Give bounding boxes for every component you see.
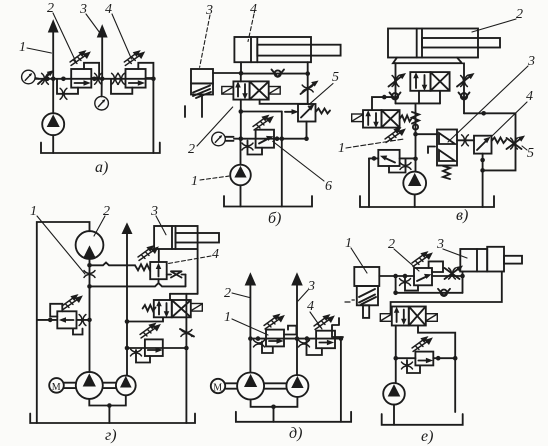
relief ball v	[413, 124, 418, 129]
label 1 d	[224, 310, 268, 335]
wire valve1 to valve2 e	[379, 275, 414, 277]
label 3 b	[200, 3, 213, 67]
valve 2 spring adjust	[70, 51, 90, 65]
valve 2 d drain loop	[307, 342, 322, 356]
motor M d	[211, 379, 225, 394]
wire right branch v	[463, 63, 465, 113]
shaft pump1-pump2 d	[264, 383, 286, 388]
wire riser 1 a	[52, 31, 54, 113]
wire reducing valve right v	[400, 157, 416, 159]
node dots valve4 bottom	[480, 111, 486, 173]
valve 4 spring adjust	[124, 51, 144, 65]
label 2 a	[47, 1, 76, 62]
relief valve 5 box	[298, 104, 316, 122]
dir valve e X cell	[409, 307, 426, 326]
reducing valve drain v	[389, 160, 406, 173]
wire 2nd valve top check	[372, 95, 394, 110]
tank v	[360, 196, 494, 207]
variable throttle right v	[457, 74, 474, 87]
throttle lower valve g	[131, 349, 142, 356]
relief g pilot hook	[50, 304, 62, 317]
wire riser1 d	[249, 284, 251, 373]
label 3 e	[436, 237, 467, 258]
flow arrow 3	[98, 26, 107, 38]
cylinder 2 barrel	[388, 29, 478, 58]
bus1 g	[90, 263, 136, 266]
variable throttle a	[38, 71, 53, 85]
wire riser1 g	[89, 259, 91, 372]
loop bowtie to bus2	[185, 275, 187, 287]
valve 4 g box	[150, 262, 167, 279]
var throttle right g	[181, 330, 192, 337]
cylinder 4 barrel	[234, 37, 311, 62]
relief valve e box	[415, 352, 433, 366]
pump 2 g	[116, 376, 136, 396]
svg-text:6: 6	[325, 179, 332, 194]
wire pump bottom v	[414, 194, 416, 207]
wire T loop e	[418, 326, 455, 413]
svg-text:5: 5	[527, 146, 534, 161]
wire riser 3 a	[101, 36, 103, 79]
pump 1 a	[42, 113, 64, 135]
wire pilot to node b	[213, 72, 241, 74]
pump e	[383, 383, 405, 405]
variable throttle 5 v	[507, 136, 525, 149]
directional valve 2 X cell	[250, 81, 269, 99]
pilot valve 3 body	[191, 69, 213, 83]
tank a	[41, 143, 160, 154]
pump 1 g	[76, 372, 103, 399]
cylinder 4 rod	[257, 45, 340, 56]
label 2 e	[388, 237, 419, 271]
relief spring on riser	[412, 112, 419, 124]
valve 4 spring v	[492, 138, 507, 144]
svg-text:3: 3	[205, 3, 213, 18]
reducing valve v box	[378, 150, 399, 166]
label 4 b	[248, 2, 257, 42]
variable throttle e	[445, 266, 463, 279]
variable throttle mid v	[385, 128, 405, 142]
wire cyl right loop e	[391, 272, 502, 314]
relief valve g box	[57, 311, 76, 328]
reducing valve 2 box	[71, 69, 91, 88]
wire node to valve top b	[240, 74, 242, 82]
wire valve bottoms v	[419, 91, 440, 104]
wire right drop a	[152, 79, 154, 153]
cylinder 2 rod	[422, 38, 500, 48]
pilot valve 3 spring box	[191, 83, 213, 98]
svg-text:4: 4	[307, 299, 314, 314]
svg-text:1: 1	[338, 141, 345, 156]
pump 1 b	[230, 165, 251, 186]
shaft M-pump1 g	[64, 383, 76, 388]
label 1 e	[345, 236, 367, 273]
svg-text:3: 3	[307, 279, 315, 294]
flow arrow g	[122, 224, 131, 234]
wire relief left g	[37, 319, 57, 321]
svg-text:1: 1	[19, 40, 26, 55]
svg-text:5: 5	[332, 70, 339, 85]
check valve line b	[241, 73, 308, 75]
wire reducing valve left v	[369, 157, 378, 159]
valve 2 d spring adjust	[314, 315, 334, 329]
svg-text:2: 2	[388, 237, 395, 252]
valve 2 pilot hook	[84, 63, 99, 78]
wire right drop g	[185, 294, 187, 423]
svg-text:3: 3	[79, 2, 87, 17]
label 3 a	[79, 2, 101, 34]
tank b	[224, 196, 312, 207]
svg-text:3: 3	[527, 54, 535, 69]
valve 1 d pilot hook	[284, 326, 296, 335]
label 5 v	[522, 146, 534, 161]
shaft pump1-pump2 g	[103, 383, 116, 388]
valve 4 pilot hook	[138, 63, 153, 78]
directional valve 2 right plate	[269, 87, 281, 95]
flow arrow 3 d	[292, 274, 302, 286]
check valve left v	[390, 93, 401, 100]
svg-text:4: 4	[105, 2, 112, 17]
wire right drop b	[281, 139, 283, 207]
relief valve 4 box v	[474, 136, 492, 154]
node dot reducing left	[372, 156, 377, 161]
pilot dashes e	[345, 300, 354, 302]
svg-text:г): г)	[105, 427, 117, 444]
node dots bus b	[239, 136, 309, 141]
wire pump bottom e	[393, 405, 395, 425]
wire check line e	[396, 292, 463, 294]
svg-text:1: 1	[30, 204, 37, 219]
throttle left of valve1 d	[254, 340, 265, 347]
variable throttle left v	[389, 74, 406, 87]
wire gauge stub b	[226, 137, 234, 141]
label 2 g	[94, 204, 110, 236]
relief e spring adjust	[412, 337, 432, 351]
node dots main line a	[45, 77, 156, 82]
node dot suction g	[107, 403, 112, 408]
node dots riser1 g	[87, 263, 92, 322]
relief g spring adjust	[62, 295, 82, 309]
valve 1 d drain loop	[262, 342, 273, 354]
lower valve g box	[145, 339, 163, 356]
svg-text:M: M	[52, 382, 61, 393]
wire relief right g	[77, 319, 90, 321]
valve 2 e pilot hook	[429, 261, 443, 272]
svg-text:1: 1	[191, 174, 198, 189]
svg-text:а): а)	[95, 159, 108, 176]
valve 3 v body	[437, 130, 457, 166]
node dots pilot b	[239, 109, 244, 114]
throttle on valve6 drain	[242, 143, 253, 150]
valve 2 d box	[316, 331, 335, 349]
valve 2 e spring adjust	[412, 252, 432, 266]
wire pump bottom b	[240, 185, 242, 206]
bus2 g	[90, 283, 186, 286]
dir valve 2nd arrows cell	[363, 110, 382, 128]
wire right drop d	[340, 339, 342, 422]
line y294 g	[170, 293, 198, 295]
dir valve arrows cell v	[410, 72, 430, 91]
reducing valve 4 box	[126, 69, 146, 88]
wire cyl left drop e	[462, 272, 464, 293]
valve 3 spring below	[443, 166, 450, 179]
wire main line a	[35, 78, 153, 80]
wire valve X bottom to valve5 top	[260, 100, 307, 104]
wire gauge stub	[35, 77, 39, 80]
label 6 b	[273, 141, 332, 194]
pilot valve 3 stem	[185, 95, 202, 118]
node dot riser e	[393, 356, 398, 361]
pump 2 d	[286, 375, 308, 397]
wire riser e	[395, 326, 397, 384]
label 4 v	[492, 89, 533, 136]
valve 2 drain loop	[57, 79, 78, 94]
wire pilot line v	[396, 102, 441, 104]
pressure gauge mid	[95, 96, 109, 110]
label 1 b	[191, 174, 229, 189]
wire gauge mid stub	[101, 79, 103, 97]
hydromotor 2 g	[76, 231, 104, 259]
dir valve e left plate	[380, 314, 392, 322]
svg-text:б): б)	[268, 210, 281, 227]
wire dir valve bottom g	[127, 317, 163, 321]
relief bus e	[396, 357, 455, 359]
cylinder 3 rod	[176, 233, 220, 243]
cylinder 4 piston	[251, 37, 257, 62]
node dots cyl line	[239, 71, 310, 76]
wire valve3 to throttle	[457, 139, 474, 141]
motor M g	[49, 378, 64, 393]
cylinder 2 piston	[417, 29, 422, 58]
node dot cyl port e	[460, 274, 465, 279]
svg-text:2: 2	[224, 286, 231, 301]
label 4 g	[168, 247, 219, 264]
wire top left g	[37, 222, 90, 423]
dir valve 2nd solenoid	[352, 114, 364, 122]
node dots bus d	[248, 336, 343, 341]
valve 3 pilot hook	[428, 147, 435, 154]
lower valve g spring adjust	[140, 324, 160, 338]
pump v	[403, 172, 426, 195]
dir valve 2nd X cell	[382, 110, 400, 128]
wire pumps suction g	[89, 395, 126, 423]
throttle valve2 drain e	[400, 279, 411, 286]
svg-text:е): е)	[421, 428, 433, 445]
variable throttle above 5	[301, 81, 318, 94]
node dot suction d	[271, 405, 276, 410]
pump 1 d	[237, 373, 264, 400]
shaft M-pump1 d	[225, 383, 237, 388]
node dot relief left	[48, 318, 53, 323]
label 3 g	[150, 204, 166, 235]
node dots relief bus e	[436, 356, 458, 361]
directional valve 2 solenoid	[222, 87, 234, 95]
wire cyl to valve4 g	[158, 249, 160, 262]
svg-text:3: 3	[436, 237, 444, 252]
bus line d	[250, 338, 341, 340]
wire riser2 g	[126, 232, 128, 376]
pilot valve 1 e top box	[354, 267, 379, 286]
pressure gauge left	[22, 70, 36, 84]
flow arrow 2 d	[245, 274, 255, 286]
pilot valve 1 e stem	[363, 305, 369, 318]
throttle before valve4	[462, 135, 469, 146]
dir valve g arrows cell	[154, 300, 172, 317]
cylinder 3 g barrel	[154, 226, 198, 249]
node dot check line e	[393, 291, 398, 296]
label 1 a	[19, 40, 51, 55]
valve 6 spring adjust	[253, 116, 273, 130]
label 1 g	[30, 204, 85, 274]
wire down to valve5 b	[307, 74, 309, 104]
valve 4 drain loop	[111, 79, 132, 94]
throttle on drain a1	[60, 88, 67, 99]
pressure gauge b	[212, 132, 226, 146]
throttle on riser1 g	[84, 271, 95, 278]
dir valve g X cell	[172, 300, 191, 317]
dir valve X cell v	[431, 72, 450, 91]
wire dir valve top stub g	[169, 294, 171, 300]
svg-text:M: M	[213, 382, 222, 393]
tank e	[382, 414, 463, 425]
label 3 d	[298, 279, 315, 301]
wire valve left bottom	[240, 100, 242, 139]
check valve top left v	[393, 95, 395, 97]
label 4 a	[105, 2, 132, 59]
tank d	[236, 412, 351, 422]
bus3 g	[127, 347, 186, 349]
label 2 b	[188, 107, 233, 157]
wire pumps suction d	[251, 397, 298, 422]
relief e drain loop	[407, 360, 420, 373]
throttle arrow right g	[180, 329, 194, 337]
valve 1 d spring adjust	[264, 315, 284, 329]
wire cyl right port	[307, 62, 309, 73]
label 3 v	[448, 54, 535, 142]
wire riser2 d	[296, 284, 298, 375]
valve 5 spring	[316, 109, 331, 114]
directional valve 2 arrows cell	[233, 81, 249, 99]
bowtie throttle g	[167, 271, 186, 277]
wire cyl left port	[240, 62, 242, 73]
pilot valve 1 e drain hook	[332, 318, 343, 337]
svg-text:4: 4	[212, 247, 219, 262]
bus line b	[234, 138, 307, 140]
wire valve1 bottom to check line e	[395, 276, 397, 293]
wire left drop v	[368, 158, 370, 207]
dir valve e right plate	[426, 314, 438, 322]
node dots line e	[393, 274, 407, 279]
valve 2 e box	[414, 268, 432, 285]
cylinder 3 e head	[487, 247, 504, 272]
wire pump to tank a	[52, 135, 54, 153]
wire right loop v	[464, 113, 516, 170]
label 1 v	[338, 139, 404, 156]
wire riser to valve3	[416, 133, 438, 135]
label 2 d	[224, 286, 250, 301]
valve 2 e drain loop	[405, 278, 418, 291]
reducing valve 6 box	[256, 130, 274, 148]
wire valve5 bottom	[306, 122, 308, 139]
spring to valve4 g	[135, 264, 150, 271]
wire left branch v	[395, 63, 397, 103]
valve4 bottom stem g	[158, 279, 160, 283]
throttle pair left of valve4	[112, 73, 125, 84]
wire valve2 to cyl e	[432, 275, 463, 277]
check valve right v	[459, 93, 470, 100]
wire valve4 bottom v	[482, 154, 484, 207]
svg-text:1: 1	[224, 310, 231, 325]
svg-text:2: 2	[516, 7, 523, 22]
svg-text:д): д)	[289, 425, 302, 442]
svg-text:2: 2	[188, 142, 195, 157]
valve 6 drain loop	[248, 141, 263, 155]
node dot bus3 right	[184, 346, 189, 351]
mount plate v	[393, 58, 462, 64]
cylinder 3 piston	[172, 226, 176, 249]
relief g drain loop	[73, 328, 83, 334]
flow arrow 2	[49, 21, 58, 33]
valve 1 d box	[266, 330, 284, 347]
wire pump top b	[240, 139, 242, 165]
throttle left of valve2 d	[299, 340, 310, 347]
valve 4 g spring adjust	[138, 246, 158, 260]
tank g	[30, 414, 195, 424]
lower valve g drain loop	[136, 350, 150, 363]
cylinder 3 e piston	[476, 249, 478, 272]
node dots riser v	[413, 132, 418, 161]
svg-text:в): в)	[456, 207, 468, 224]
label 5 b	[309, 70, 340, 105]
check valve e	[438, 289, 450, 296]
node dots riser2 g	[125, 319, 130, 350]
main riser v	[415, 103, 417, 171]
pilot line to valve5	[241, 110, 298, 139]
dir valve e arrows cell	[392, 307, 409, 326]
dir valve 2nd spring	[400, 115, 412, 121]
cylinder 3 e barrel	[460, 249, 487, 272]
dir valve g solenoid	[191, 304, 203, 312]
check valve b	[272, 70, 285, 77]
label 4 d	[307, 299, 322, 329]
throttle relief drain e	[402, 362, 413, 369]
throttle pair right of valve2	[95, 73, 102, 84]
label 2 v	[472, 7, 523, 32]
throttle reducing drain v	[400, 163, 411, 170]
wire cyl right drop g	[197, 249, 199, 294]
cylinder 3 e rod	[504, 256, 522, 264]
pilot valve 1 e spring box	[357, 286, 378, 305]
throttle relief right g	[79, 315, 86, 326]
dir valve g spring	[143, 305, 156, 311]
